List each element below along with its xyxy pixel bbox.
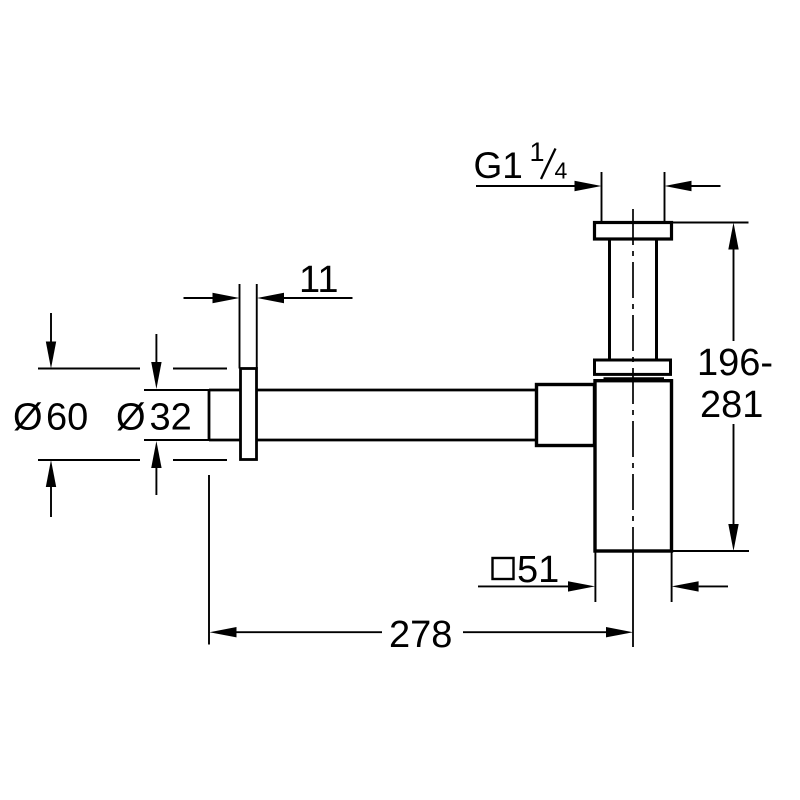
dimension Ø60: extension lines	[38, 369, 227, 461]
washer line under union nut	[604, 377, 665, 379]
svg-text:Ø: Ø	[116, 397, 146, 439]
dimension Ø32: arrows	[155, 334, 157, 363]
svg-text:1: 1	[530, 137, 545, 167]
svg-text:60: 60	[46, 397, 88, 439]
dimension square 51: arrows	[478, 585, 569, 587]
horizontal outlet pipe	[209, 390, 540, 440]
centerline solid extension below body	[632, 551, 634, 647]
dimension square 51: extension lines	[595, 551, 671, 602]
dimension 11: extension lines	[240, 284, 257, 369]
dimension 11: arrows	[184, 297, 214, 299]
svg-text:G1: G1	[474, 145, 523, 186]
svg-text:278: 278	[389, 614, 452, 656]
svg-text:11: 11	[299, 259, 338, 301]
dimension Ø32: extension lines	[144, 390, 209, 440]
svg-text:196-: 196-	[697, 342, 773, 384]
svg-text:Ø: Ø	[13, 397, 43, 439]
top wall flange	[595, 223, 672, 240]
svg-text:4: 4	[555, 158, 568, 184]
svg-text:281: 281	[700, 384, 763, 426]
vertical inlet pipe	[610, 239, 657, 361]
dimension 278: arrows	[210, 627, 237, 637]
dimension 278: extension line left	[208, 475, 210, 645]
siphon body	[595, 381, 672, 551]
dimension Ø60: arrows	[50, 313, 52, 343]
dimension square 51: label square symbol	[493, 558, 514, 579]
coupling nut at body inlet	[537, 385, 595, 446]
svg-text:32: 32	[150, 397, 192, 439]
dimension 196-281: arrows	[728, 223, 738, 250]
dimension 196-281: extension lines	[672, 223, 750, 552]
union nut on body top	[595, 360, 671, 374]
vertical centerline dash-dot	[632, 209, 634, 551]
dimension G1 1/4: extension lines	[602, 172, 665, 223]
svg-text:51: 51	[517, 549, 559, 591]
dimension G1 1/4: leader and arrows	[476, 185, 576, 187]
wall flange rosette on horizontal pipe	[241, 369, 257, 460]
